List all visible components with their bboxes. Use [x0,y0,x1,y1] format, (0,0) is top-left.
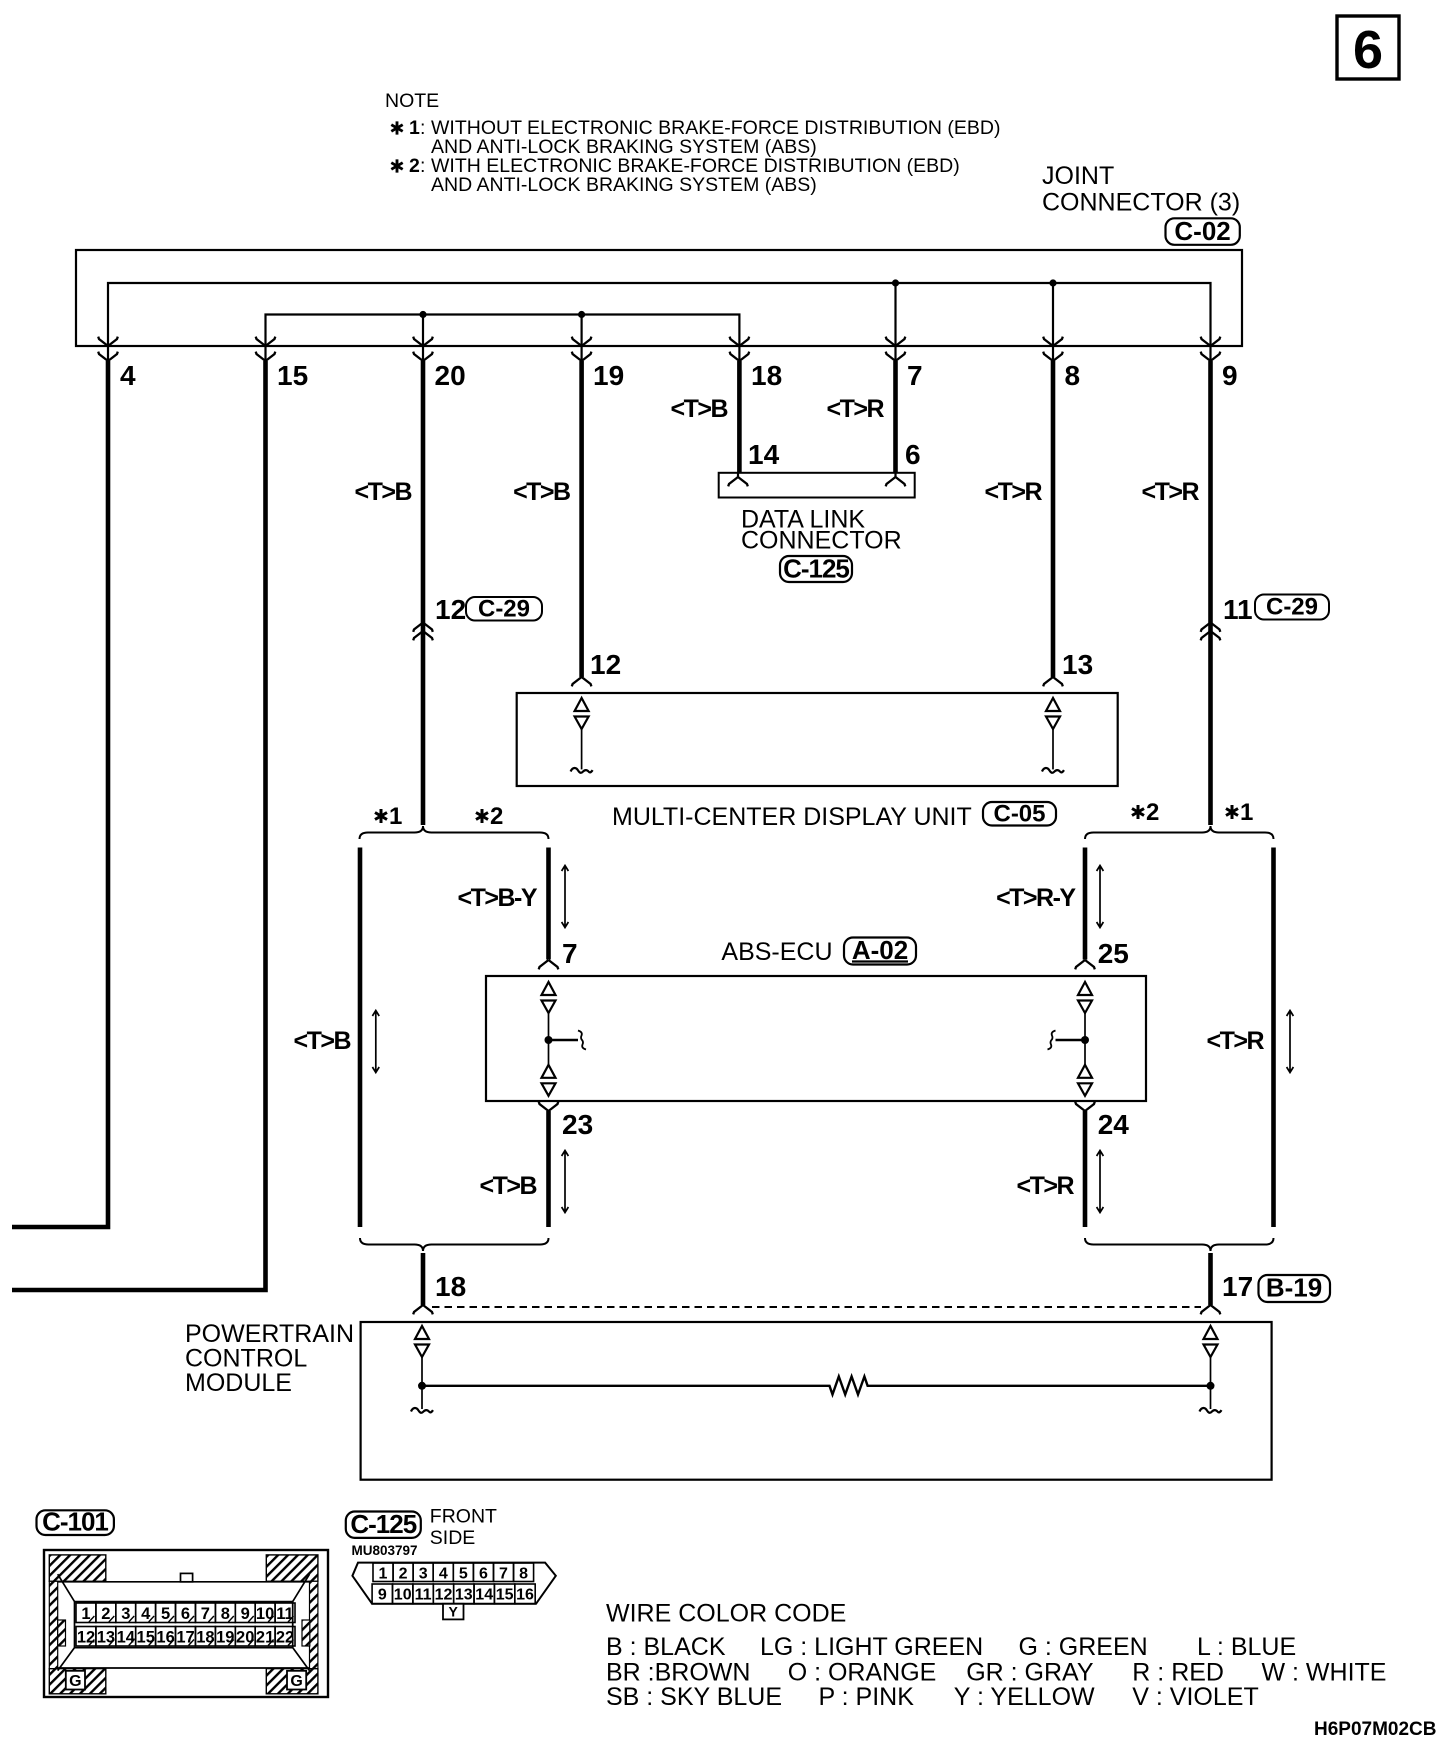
svg-text:20: 20 [435,360,466,391]
twist arrow pin 23 [562,1151,569,1213]
svg-text:L : BLUE: L : BLUE [1197,1633,1296,1661]
twist arrow pin 24 [1097,1151,1104,1213]
twist arrow at TB-Y [562,866,569,928]
joint connector C-02 body (outer box) [76,250,1242,346]
label *2 (left) [476,803,503,830]
svg-text::: : [420,117,425,139]
junction node rail2/wire7 [892,279,899,286]
svg-text:AND ANTI-LOCK BRAKING SYSTEM (: AND ANTI-LOCK BRAKING SYSTEM (ABS) [431,174,817,196]
svg-text:9: 9 [1222,360,1238,391]
svg-text:24: 24 [1098,1109,1130,1140]
svg-text:<T>R: <T>R [1141,478,1199,506]
svg-text:P : PINK: P : PINK [819,1683,915,1711]
connector label C-29 (left) [466,596,542,623]
wire 18 to DLC (B) [737,361,742,473]
svg-text:15: 15 [277,360,308,391]
svg-text:25: 25 [1098,938,1129,969]
sheet number box 6 [1337,16,1399,80]
data link connector box [719,473,915,498]
ABS-ECU box [486,976,1146,1101]
svg-text:16: 16 [156,1629,174,1647]
svg-text:NOTE: NOTE [385,90,439,112]
connector label C-29 (right) [1255,594,1329,621]
svg-text:<T>R: <T>R [1206,1027,1264,1055]
svg-text:V : VIOLET: V : VIOLET [1132,1683,1258,1711]
svg-text:21: 21 [256,1629,274,1647]
MCDU internal terminal pin 13 [1042,698,1064,773]
svg-text:6: 6 [905,439,921,470]
connector label C-125 (DLC) [780,554,852,584]
connector label C-02 [1166,216,1240,246]
svg-text:19: 19 [593,360,624,391]
svg-text:C-29: C-29 [1266,594,1318,621]
svg-text:16: 16 [516,1587,534,1604]
twist arrow mid right [1287,1011,1294,1073]
split brace left (wire 20 to *1/*2) [360,826,549,839]
connector exit chevrons pin 18 [730,337,750,361]
connector exit chevrons pin 8 [1043,337,1063,361]
svg-text:5: 5 [161,1605,170,1623]
svg-text:18: 18 [435,1271,466,1302]
svg-text:2: 2 [409,155,420,177]
entry chevron MCDU pin 12 [572,677,592,686]
svg-text:Y: Y [449,1604,459,1620]
svg-text:3: 3 [121,1605,130,1623]
svg-text:<T>B: <T>B [293,1027,350,1055]
svg-text:10: 10 [256,1605,274,1623]
joint connector inner rail 3 [266,315,740,347]
joint connector inner rail 2 [108,283,1211,346]
svg-text:JOINT: JOINT [1042,162,1114,190]
label *1 (left) [375,803,402,830]
entry chevron ABS pin 7 [539,960,559,969]
svg-text:4: 4 [439,1566,448,1583]
DLC terminal pin 14 [728,474,748,487]
svg-text:14: 14 [475,1587,493,1604]
svg-text:7: 7 [562,938,578,969]
svg-text:G: G [290,1673,302,1690]
entry chevron PCM pin 18 [413,1305,433,1314]
svg-text:17: 17 [176,1629,194,1647]
svg-text:9: 9 [378,1587,387,1604]
svg-text:11: 11 [415,1587,432,1604]
junction node rail3/wire19 [578,311,585,318]
rail drop wire 7 [894,283,896,346]
wire color code legend [606,1600,1386,1712]
wire 17 to PCM (R) [1208,1253,1213,1305]
wire 19 (B) [579,361,584,677]
connector exit chevrons pin 9 [1201,337,1221,361]
svg-text:13: 13 [1062,649,1093,680]
svg-text:CONNECTOR: CONNECTOR [741,527,902,555]
wire 18 to PCM (B) [421,1253,426,1305]
junction node rail3/wire20 [419,311,426,318]
rail drop wire 20 [422,315,424,347]
svg-text:C-02: C-02 [1174,216,1230,246]
svg-text:<T>B: <T>B [354,478,411,506]
svg-text:C-125: C-125 [783,554,849,584]
svg-text:3: 3 [419,1566,428,1583]
data link connector title [741,506,902,555]
svg-text:C-29: C-29 [478,596,530,623]
wire 15 (to C-101) [12,361,266,1290]
svg-text:15: 15 [496,1587,514,1604]
connector C-125 pinout drawing [352,1563,555,1620]
svg-text:SIDE: SIDE [430,1527,476,1549]
svg-text:Y : YELLOW: Y : YELLOW [954,1683,1095,1711]
svg-text:ABS-ECU: ABS-ECU [721,938,832,966]
svg-text:12: 12 [435,1587,453,1604]
wire 9 (R) [1208,361,1213,825]
svg-text:20: 20 [236,1629,254,1647]
svg-text:W : WHITE: W : WHITE [1262,1659,1387,1687]
svg-text:12: 12 [77,1629,95,1647]
twist arrow at TR-Y [1097,866,1104,928]
inline connector C-29 on wire 20 [413,623,433,641]
exit chevron ABS pin 24 [1075,1102,1095,1111]
svg-text:<T>R: <T>R [1016,1172,1074,1200]
svg-text:<T>B-Y: <T>B-Y [457,884,537,912]
svg-text:2: 2 [1146,799,1159,826]
svg-text:15: 15 [137,1629,155,1647]
ABS internal terminal pin 7/23 [542,982,587,1096]
PCM internal resistor [422,1377,1211,1395]
svg-text:6: 6 [479,1566,488,1583]
svg-text:2: 2 [490,803,503,830]
exit chevron ABS pin 23 [539,1102,559,1111]
svg-text:MU803797: MU803797 [352,1543,418,1558]
label *1 (right) [1226,799,1253,826]
multi-center display unit box [517,693,1118,786]
svg-text:13: 13 [455,1587,473,1604]
svg-text:CONNECTOR (3): CONNECTOR (3) [1042,189,1240,217]
svg-text:2: 2 [101,1605,110,1623]
svg-text::: : [420,155,425,177]
wire pin 24 (R) [1083,1111,1088,1227]
merge brace right (24/*1 to wire 17) [1085,1238,1274,1251]
svg-text:7: 7 [907,360,923,391]
svg-text:MULTI-CENTER DISPLAY UNIT: MULTI-CENTER DISPLAY UNIT [612,803,972,831]
svg-text:11: 11 [1223,594,1253,625]
svg-text:8: 8 [221,1605,230,1623]
svg-text:<T>B: <T>B [670,395,727,423]
entry chevron ABS pin 25 [1075,960,1095,969]
dashed harness line [432,1306,1201,1308]
svg-text:2: 2 [399,1566,408,1583]
svg-text:G : GREEN: G : GREEN [1019,1633,1148,1661]
svg-text:FRONT: FRONT [430,1506,497,1528]
svg-text:18: 18 [751,360,782,391]
front side caption [430,1506,497,1550]
connector label A-02 [844,935,916,965]
svg-text:G: G [69,1673,81,1690]
powertrain control module title [185,1320,354,1397]
svg-text:17: 17 [1222,1271,1253,1302]
joint connector C-02 title [1042,162,1240,217]
svg-text:8: 8 [1065,360,1081,391]
svg-text:7: 7 [201,1605,210,1623]
entry chevron PCM pin 17 [1201,1305,1221,1314]
svg-text:12: 12 [435,594,466,625]
wire 4 (to C-101) [12,361,108,1227]
svg-text:12: 12 [590,649,621,680]
branch wire *1 left (B) [358,848,363,1228]
svg-text:C-125: C-125 [350,1509,416,1539]
PCM internal terminal pin 18 [411,1326,433,1413]
MCDU internal terminal pin 12 [571,698,593,773]
svg-text:1: 1 [81,1605,90,1623]
svg-text:WIRE COLOR CODE: WIRE COLOR CODE [606,1600,846,1628]
svg-text:B : BLACK: B : BLACK [606,1633,726,1661]
connector label C-125 (bottom) [346,1509,421,1539]
svg-text:B-19: B-19 [1266,1273,1322,1303]
svg-text:<T>B: <T>B [513,478,570,506]
entry chevron MCDU pin 13 [1043,677,1063,686]
junction node rail2/wire8 [1049,279,1056,286]
merge brace left (*1/23 to wire 18) [360,1238,549,1251]
svg-text:7: 7 [499,1566,508,1583]
svg-text:4: 4 [120,360,136,391]
svg-text:9: 9 [241,1605,250,1623]
svg-text:23: 23 [562,1109,593,1140]
svg-text:1: 1 [409,117,420,139]
note text block [385,90,1001,196]
wire 7 to DLC (R) [893,361,898,473]
svg-text:14: 14 [117,1629,136,1647]
svg-text:C-05: C-05 [993,801,1045,828]
svg-text:8: 8 [519,1566,528,1583]
svg-text:13: 13 [97,1629,115,1647]
split brace right (wire 9 to *2/*1) [1085,826,1274,839]
svg-text:6: 6 [1353,20,1383,80]
connector exit chevrons pin 19 [572,337,592,361]
DLC terminal pin 6 [886,474,906,487]
branch wire *1 right (R) [1271,848,1276,1228]
svg-text:5: 5 [459,1566,468,1583]
svg-text:1: 1 [389,803,402,830]
svg-text:<T>R: <T>R [826,395,884,423]
ABS internal terminal pin 25/24 [1048,982,1093,1096]
PCM internal terminal pin 17 [1200,1326,1222,1413]
powertrain control module box [361,1322,1272,1480]
svg-text:1: 1 [379,1566,388,1583]
svg-text:19: 19 [216,1629,234,1647]
svg-text:<T>R: <T>R [984,478,1042,506]
wire 20 (B) [421,361,426,825]
svg-text:18: 18 [196,1629,214,1647]
label *2 (right) [1132,799,1159,826]
connector exit chevrons pin 7 [886,337,906,361]
twist arrow mid left [372,1011,379,1073]
connector exit chevrons pin 20 [413,337,433,361]
svg-text:22: 22 [276,1629,294,1647]
rail drop wire 19 [580,315,582,347]
svg-text:6: 6 [181,1605,190,1623]
connector label C-05 [983,801,1056,828]
svg-text:1: 1 [1240,799,1253,826]
svg-text:H6P07M02CB: H6P07M02CB [1314,1719,1437,1740]
svg-text:<T>B: <T>B [479,1172,536,1200]
wire 8 (R) [1051,361,1056,677]
svg-text:SB : SKY BLUE: SB : SKY BLUE [606,1683,782,1711]
connector C-101 pinout drawing [44,1550,328,1697]
connector label B-19 [1259,1273,1331,1303]
svg-text:11: 11 [276,1605,293,1623]
branch wire *2 left (B-Y) [546,848,551,960]
svg-text:<T>R-Y: <T>R-Y [996,884,1076,912]
branch wire *2 right (R-Y) [1083,848,1088,960]
svg-text:LG : LIGHT GREEN: LG : LIGHT GREEN [760,1633,983,1661]
connector label C-101 [37,1507,114,1537]
svg-text:14: 14 [748,439,780,470]
wire pin 23 (B) [546,1111,551,1227]
connector exit chevrons pin 15 [256,337,276,361]
connector exit chevrons pin 4 [98,337,118,361]
rail drop wire 8 [1052,283,1054,346]
svg-text:10: 10 [394,1587,412,1604]
inline connector C-29 on wire 9 [1201,623,1221,641]
svg-text:MODULE: MODULE [185,1369,292,1397]
svg-text:C-101: C-101 [42,1507,108,1537]
